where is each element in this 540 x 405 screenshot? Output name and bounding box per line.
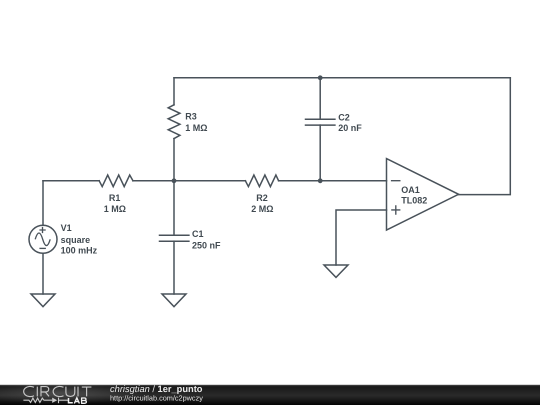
svg-text:C2: C2 (338, 112, 350, 122)
svg-text:V1: V1 (61, 223, 72, 233)
svg-text:100 mHz: 100 mHz (61, 246, 98, 256)
svg-text:2 MΩ: 2 MΩ (251, 204, 273, 214)
svg-text:R2: R2 (256, 193, 268, 203)
svg-text:20 nF: 20 nF (338, 123, 362, 133)
svg-text:1 MΩ: 1 MΩ (185, 123, 207, 133)
svg-text:250 nF: 250 nF (192, 240, 221, 250)
svg-text:R1: R1 (109, 193, 121, 203)
svg-text:C1: C1 (192, 229, 204, 239)
svg-text:R3: R3 (185, 112, 197, 122)
svg-text:TL082: TL082 (401, 196, 427, 206)
svg-text:OA1: OA1 (401, 185, 420, 195)
svg-text:1 MΩ: 1 MΩ (104, 204, 126, 214)
svg-text:http://circuitlab.com/c2pwczy: http://circuitlab.com/c2pwczy (110, 393, 203, 402)
svg-text:square: square (61, 235, 91, 245)
